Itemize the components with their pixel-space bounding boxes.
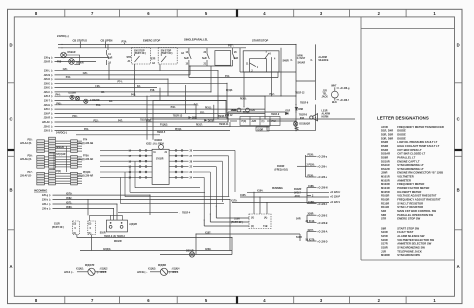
- svg-text:TB1R-12: TB1R-12: [295, 93, 305, 95]
- svg-text:X170↓: X170↓: [231, 199, 238, 202]
- wires S10R box feeders: [204, 206, 249, 226]
- svg-text:LETTER DESIGNATIONS: LETTER DESIGNATIONS: [377, 115, 429, 120]
- wire 24VDC(+) bus upper: [58, 43, 296, 45]
- switch EM STOP box 2 (dashed): [158, 48, 177, 65]
- letter designations rows block 2: [381, 226, 435, 257]
- svg-text:SaR: SaR: [108, 58, 113, 60]
- svg-text:J1R: J1R: [323, 91, 328, 93]
- svg-text:P37↓: P37↓: [228, 44, 234, 48]
- switch S4R aux contacts: [307, 215, 317, 222]
- svg-text:(FREQ ADJ): (FREQ ADJ): [275, 169, 288, 172]
- svg-text:AMMETER: AMMETER: [397, 178, 411, 182]
- module right terminal wires: [169, 150, 188, 179]
- svg-text:P(X): P(X): [242, 121, 247, 123]
- meter tie wires: [90, 215, 123, 221]
- switch S6R contacts group: [189, 48, 235, 66]
- svg-text:SYNCHRONIZING LT: SYNCHRONIZING LT: [397, 167, 424, 171]
- switch S10R part-of dashed box: [249, 214, 271, 229]
- svg-text:X105↓: X105↓: [240, 194, 247, 197]
- svg-text:24VDC(-): 24VDC(-): [56, 131, 67, 135]
- svg-text:K3↓: K3↓: [109, 100, 113, 103]
- svg-text:(O-)(I) J26-AB: (O-)(I) J26-AB: [78, 142, 93, 145]
- svg-text:J26-AA (O-: J26-AA (O-: [20, 142, 32, 145]
- svg-text:+O J26-A: +O J26-A: [317, 231, 327, 234]
- svg-text:X322 ↓(A)↓ P634: X322 ↓(A)↓ P634: [146, 143, 164, 146]
- svg-text:(PART OF): (PART OF): [134, 52, 146, 55]
- svg-text:TB1R-8: TB1R-8: [299, 115, 308, 117]
- svg-text:J1R: J1R: [381, 249, 386, 253]
- svg-text:P31↓: P31↓: [84, 128, 89, 131]
- svg-text:T1B: T1B: [263, 226, 268, 228]
- svg-text:P30↓: P30↓: [72, 115, 77, 118]
- svg-text:DS30R: DS30R: [76, 62, 84, 64]
- svg-text:DS11R: DS11R: [381, 163, 390, 167]
- wire TB1R-4: [118, 211, 178, 213]
- svg-text:R103R: R103R: [381, 198, 389, 202]
- diode D6R: [295, 108, 297, 111]
- switch S45AR horn-test box: [296, 44, 315, 81]
- svg-text:↓X1(X)4: ↓X1(X)4: [171, 267, 180, 270]
- svg-text:DIODE: DIODE: [397, 136, 406, 140]
- svg-text:S45AR: S45AR: [298, 61, 306, 64]
- svg-text:(O-)(I) J26-AR: (O-)(I) J26-AR: [78, 175, 93, 178]
- svg-text:SINGLE/PARALLEL: SINGLE/PARALLEL: [184, 38, 208, 42]
- lamp box outline: [66, 55, 79, 65]
- svg-text:+O J26-P: +O J26-P: [330, 197, 340, 199]
- svg-text:J26-R: J26-R: [44, 62, 51, 64]
- svg-text:(F): (F): [251, 226, 254, 228]
- svg-text:J26-E: J26-E: [44, 83, 51, 85]
- svg-text:J26-H: J26-H: [44, 105, 51, 107]
- svg-text:DS12R: DS12R: [381, 167, 390, 171]
- svg-text:ALARM: ALARM: [322, 113, 330, 116]
- svg-text:TELEPHONE JACK: TELEPHONE JACK: [397, 249, 422, 253]
- svg-text:(1): (1): [73, 233, 76, 235]
- svg-text:TB1R-11: TB1R-11: [219, 124, 229, 126]
- svg-text:P38: P38: [57, 62, 62, 64]
- svg-text:-(○ J26-R: -(○ J26-R: [97, 271, 107, 274]
- svg-text:HORN: HORN: [322, 117, 329, 119]
- svg-text:DS6R: DS6R: [381, 156, 388, 160]
- svg-text:+O J26-s: +O J26-s: [317, 177, 327, 179]
- svg-text:J26-L: J26-L: [44, 71, 51, 73]
- svg-text:JACK: JACK: [322, 96, 329, 99]
- svg-text:DIODE: DIODE: [397, 129, 406, 133]
- svg-text:J26-E: J26-E: [44, 88, 51, 90]
- svg-text:ENGINE RM CONNECTOR “B” 120B: ENGINE RM CONNECTOR “B” 120B: [397, 171, 443, 175]
- svg-text:D: D: [9, 43, 12, 48]
- svg-text:C-: C-: [311, 60, 314, 62]
- svg-text:← TB1R-4: ← TB1R-4: [179, 212, 191, 215]
- svg-text:X188↓: X188↓: [308, 185, 315, 188]
- svg-text:S4R: S4R: [296, 218, 301, 221]
- svg-text:LOW OIL PRESSURE FAULT LT: LOW OIL PRESSURE FAULT LT: [397, 140, 437, 144]
- relay box DS sub: [256, 127, 269, 131]
- wire X107 run: [196, 233, 300, 235]
- svg-text:P31↓: P31↓: [96, 104, 101, 107]
- svg-text:(Y): (Y): [251, 218, 254, 220]
- svg-text:FREQUENCY METER: FREQUENCY METER: [397, 182, 424, 186]
- svg-text:M104R: M104R: [381, 186, 390, 190]
- svg-text:2 P526↓: 2 P526↓: [307, 164, 316, 167]
- svg-text:POWER FACTOR METER: POWER FACTOR METER: [397, 186, 429, 190]
- svg-text:+O J26-D: +O J26-D: [317, 241, 327, 243]
- svg-text:SYNCHRONIZING LT: SYNCHRONIZING LT: [397, 163, 424, 167]
- svg-text:M5D2R: M5D2R: [56, 147, 64, 149]
- wire P41 run: [189, 77, 278, 79]
- svg-text:S4BR: S4BR: [283, 60, 290, 63]
- center dark ticks: [236, 9, 238, 303]
- svg-text:24VDC(+): 24VDC(+): [57, 34, 69, 38]
- svg-text:MAIN CKT BKR CONTROL SW: MAIN CKT BKR CONTROL SW: [397, 209, 436, 213]
- start/stop switch arms: [250, 53, 272, 96]
- svg-text:J26-D: J26-D: [44, 79, 51, 81]
- svg-text:(1): (1): [262, 121, 265, 123]
- svg-text:↓X1(X)2: ↓X1(X)2: [99, 267, 108, 270]
- svg-text:X1(X)3↓: X1(X)3↓: [148, 267, 156, 270]
- svg-text:X18R↓: X18R↓: [308, 201, 315, 204]
- switch S11R dashed box b: [88, 221, 96, 235]
- svg-text:M101R: M101R: [381, 175, 390, 179]
- svg-text:S9R: S9R: [381, 226, 386, 230]
- start/stop inner box: [250, 59, 267, 72]
- svg-text:START STOP SW: START STOP SW: [397, 226, 419, 230]
- svg-text:DS26R: DS26R: [69, 92, 77, 94]
- svg-text:D2R, D5R: D2R, D5R: [381, 133, 393, 137]
- svg-text:J26-AC: J26-AC: [42, 121, 50, 124]
- svg-text:(2): (2): [88, 224, 91, 226]
- svg-text:R110R: R110R: [381, 201, 389, 205]
- zone tick separators top band: [65, 9, 406, 17]
- svg-text:P41↓: P41↓: [225, 75, 230, 78]
- svg-text:50 X270↓: 50 X270↓: [306, 238, 316, 241]
- module left terminal wires: [100, 150, 152, 179]
- svg-text:DS51R: DS51R: [186, 250, 194, 252]
- lamp DS8R: [237, 108, 241, 112]
- svg-text:A: A: [457, 264, 460, 269]
- wire start/stop loop left: [240, 48, 296, 72]
- svg-text:X571↓: X571↓: [66, 201, 73, 204]
- svg-text:TEL: TEL: [323, 94, 328, 96]
- svg-text:M102R: M102R: [381, 178, 390, 182]
- svg-text:+O J26-t: +O J26-t: [317, 165, 326, 168]
- svg-text:ENGINE CAPT LT: ENGINE CAPT LT: [397, 159, 420, 163]
- svg-text:+O J26-g: +O J26-g: [340, 88, 350, 90]
- svg-text:K2↓: K2↓: [101, 91, 105, 94]
- svg-text:M105R: M105R: [381, 190, 390, 194]
- wires alarm cluster: [228, 112, 315, 131]
- svg-text:X209↓: X209↓: [205, 248, 212, 251]
- wires meter runs: [77, 238, 232, 255]
- svg-text:DS10(X)R: DS10(X)R: [299, 124, 310, 126]
- svg-text:J26-F: J26-F: [44, 109, 51, 111]
- svg-text:M108R: M108R: [381, 253, 390, 257]
- diode D1R: [286, 112, 289, 114]
- wire 24VDC(+) bus lower: [58, 47, 246, 49]
- meter box M102R: [106, 220, 127, 232]
- S6R link box: [215, 51, 231, 66]
- svg-text:LS1R: LS1R: [322, 111, 328, 113]
- svg-text:CB OPEN: CB OPEN: [101, 38, 113, 42]
- wire TB1R-13 run: [150, 118, 355, 120]
- svg-text:J26-R: J26-R: [44, 118, 51, 120]
- svg-text:C: C: [9, 117, 12, 122]
- svg-text:HIGH COOLANT TEMP FAULT LT: HIGH COOLANT TEMP FAULT LT: [397, 144, 439, 148]
- svg-text:SYNCHROSCOPE: SYNCHROSCOPE: [397, 253, 420, 257]
- connector rows J26 left column: [42, 57, 270, 133]
- svg-text:C-TEST: C-TEST: [297, 58, 306, 60]
- svg-text:P44↓: P44↓: [56, 93, 61, 96]
- svg-text:S10R: S10R: [381, 230, 388, 234]
- relay box A2R: [240, 117, 280, 126]
- svg-text:J26-S: J26-S: [44, 131, 51, 133]
- meter M101R circle: [159, 145, 164, 150]
- svg-text:J26-N: J26-N: [44, 75, 51, 77]
- svg-text:VOLTMETER: VOLTMETER: [397, 175, 413, 179]
- zone letters right: [457, 43, 460, 270]
- svg-text:S7R: S7R: [381, 217, 386, 221]
- svg-text:J26-S (○-: J26-S (○-: [64, 271, 74, 274]
- svg-text:P48↓: P48↓: [150, 89, 155, 92]
- svg-text:(A): (A): [264, 217, 267, 220]
- svg-text:(O-)(I) J26-AD: (O-)(I) J26-AD: [78, 158, 93, 161]
- svg-text:J26-T: J26-T: [44, 101, 51, 103]
- module box SY02R: [152, 149, 169, 184]
- svg-text:DIODE: DIODE: [397, 133, 406, 137]
- svg-text:J26-g: J26-g: [44, 58, 51, 60]
- wire P42 long run: [150, 95, 296, 97]
- svg-text:F26↓: F26↓: [63, 68, 68, 71]
- svg-text:2 DS26R: 2 DS26R: [90, 100, 100, 102]
- zone tick separators right band: [455, 83, 462, 230]
- svg-text:S10R: S10R: [100, 233, 106, 235]
- zone numbers bottom: [35, 298, 437, 303]
- svg-text:S7R: S7R: [127, 57, 132, 59]
- svg-text:ALARM: ALARM: [318, 56, 326, 59]
- svg-text:D6R: D6R: [298, 109, 303, 111]
- mid dark ticks sides: [8, 149, 462, 151]
- svg-text:P34↓: P34↓: [66, 76, 71, 79]
- svg-text:X1(X)1↓: X1(X)1↓: [76, 267, 84, 270]
- svg-text:P42↓: P42↓: [131, 93, 136, 96]
- svg-text:+O J26-y: +O J26-y: [317, 156, 327, 158]
- svg-text:P1(X)2↓: P1(X)2↓: [160, 124, 168, 127]
- svg-text:SYNC LT RESISTOR: SYNC LT RESISTOR: [397, 205, 423, 209]
- wire labels mid-left: [56, 68, 251, 131]
- svg-text:DIDR: DIDR: [258, 129, 264, 131]
- svg-text:X207↓: X207↓: [308, 229, 315, 232]
- svg-text:ALARM SILENCE SW: ALARM SILENCE SW: [397, 234, 425, 238]
- svg-text:X579↓: X579↓: [66, 193, 73, 196]
- svg-text:J26R: J26R: [381, 171, 387, 175]
- svg-text:TB1R-5: TB1R-5: [157, 132, 166, 134]
- svg-text:AMMETER SELECTOR SW: AMMETER SELECTOR SW: [397, 242, 431, 246]
- svg-text:START/STOP: START/STOP: [252, 38, 268, 42]
- svg-text:J26-Z: J26-Z: [44, 96, 51, 98]
- svg-text:DS10R: DS10R: [381, 159, 390, 163]
- svg-text:M101R: M101R: [155, 140, 163, 142]
- svg-text:J26-W (○-: J26-W (○-: [137, 271, 148, 274]
- svg-text:P74: P74: [83, 139, 88, 142]
- svg-text:+O J26-U: +O J26-U: [330, 192, 340, 194]
- svg-text:M(X)07R: M(X)07R: [85, 265, 95, 267]
- svg-text:P74↓: P74↓: [122, 39, 128, 43]
- svg-text:+O J26-V: +O J26-V: [330, 202, 340, 204]
- svg-text:F26↓: F26↓: [95, 85, 100, 88]
- zone numbers top: [35, 11, 437, 16]
- svg-text:CKT BKR OPEN LT: CKT BKR OPEN LT: [397, 148, 422, 152]
- svg-text:BLK: BLK: [332, 102, 337, 104]
- svg-text:TB1R-14: TB1R-14: [140, 119, 150, 122]
- svg-text:S10R: S10R: [234, 219, 240, 221]
- svg-text:PARALLEL OPERATION SW: PARALLEL OPERATION SW: [397, 213, 433, 217]
- svg-text:R111R: R111R: [381, 205, 389, 209]
- wire verticals lower region: [77, 192, 300, 255]
- svg-text:S7R: S7R: [151, 59, 156, 61]
- zone tick separators bottom band: [65, 296, 406, 303]
- svg-text:RUNNING: RUNNING: [272, 188, 283, 190]
- horn LS1R: [310, 114, 318, 121]
- svg-text:P(X)3↓: P(X)3↓: [175, 128, 182, 131]
- wire verticals mid region: [108, 44, 315, 139]
- svg-text:P42↓: P42↓: [270, 93, 275, 96]
- svg-text:DS9AR: DS9AR: [68, 51, 76, 54]
- svg-text:(1): (1): [88, 233, 91, 235]
- switch S11R dashed box a: [73, 221, 80, 235]
- svg-text:J26-g: J26-g: [42, 195, 49, 197]
- svg-text:P526↓: P526↓: [308, 154, 315, 157]
- svg-text:P46↓: P46↓: [171, 106, 176, 109]
- wire junction dots: [61, 44, 316, 238]
- svg-text:P31↓: P31↓: [200, 112, 205, 115]
- resistor R110R zigzag: [295, 126, 299, 130]
- lamp DS26R b: [75, 97, 79, 101]
- lamp DS51R: [189, 252, 194, 257]
- svg-text:B: B: [457, 188, 460, 193]
- svg-text:KILOWATT METER: KILOWATT METER: [397, 190, 421, 194]
- diode D4R arrow: [204, 119, 207, 121]
- extra row wires lower-mid: [147, 101, 265, 127]
- svg-text:HRN: HRN: [298, 55, 303, 57]
- svg-text:VOLTAGE ADJUST RHEOSTAT: VOLTAGE ADJUST RHEOSTAT: [397, 194, 436, 198]
- zone letters left: [9, 43, 12, 270]
- svg-text:DS4R: DS4R: [381, 148, 388, 152]
- svg-text:B: B: [9, 188, 12, 193]
- svg-text:D3R, D6R: D3R, D6R: [381, 136, 393, 140]
- svg-text:P39 ↓: P39 ↓: [28, 154, 34, 157]
- svg-text:P(X): P(X): [56, 171, 61, 173]
- wire S6R bottom tie: [189, 65, 233, 67]
- svg-text:J26-P: J26-P: [44, 113, 51, 115]
- svg-text:J26-b: J26-b: [42, 200, 49, 202]
- svg-text:SaR: SaR: [234, 58, 239, 60]
- svg-text:P526↓: P526↓: [308, 174, 315, 177]
- svg-text:+O J26-N: +O J26-N: [317, 188, 327, 190]
- svg-text:TB1R-13: TB1R-13: [173, 115, 183, 117]
- svg-text:P32↓: P32↓: [94, 119, 99, 122]
- switch S10R contacts: [307, 232, 317, 242]
- wires running taps: [232, 192, 329, 202]
- svg-text:S16R: S16R: [381, 238, 388, 242]
- letter designations table frame: [361, 17, 455, 260]
- svg-text:A(X)2R: A(X)2R: [129, 223, 137, 226]
- svg-text:PARALLEL LT: PARALLEL LT: [397, 156, 415, 160]
- svg-text:C: C: [457, 117, 460, 122]
- svg-text:SILENCE: SILENCE: [318, 60, 329, 62]
- svg-text:S6R: S6R: [381, 213, 386, 217]
- svg-text:J26-G: J26-G: [44, 126, 51, 128]
- svg-text:A: A: [9, 264, 12, 269]
- svg-text:+O J26-f: +O J26-f: [340, 100, 349, 102]
- svg-text:S17R: S17R: [381, 242, 388, 246]
- svg-text:R102R: R102R: [294, 189, 302, 191]
- svg-text:D: D: [457, 43, 460, 48]
- svg-text:(PART OF): (PART OF): [161, 52, 173, 55]
- svg-text:R103R: R103R: [277, 166, 285, 168]
- wire 24VDC(-): [76, 134, 160, 136]
- svg-text:J26-AF (O-: J26-AF (O-: [20, 175, 32, 178]
- svg-text:J26-a: J26-a: [42, 209, 49, 211]
- svg-text:D(X)R: D(X)R: [208, 120, 215, 122]
- svg-text:P(X)1↓: P(X)1↓: [205, 107, 212, 110]
- svg-text:P55 ↓: P55 ↓: [28, 139, 34, 142]
- wire drops under top labels: [80, 42, 124, 49]
- svg-text:SY02R: SY02R: [156, 158, 164, 160]
- svg-text:X26R↓: X26R↓: [308, 213, 315, 216]
- svg-text:P(X)23: P(X)23: [83, 172, 91, 174]
- svg-text:X582↓: X582↓: [66, 197, 73, 200]
- svg-text:P47↓: P47↓: [118, 119, 123, 122]
- svg-text:INCOMING: INCOMING: [34, 189, 47, 193]
- svg-text:-(○ J26-X: -(○ J26-X: [169, 271, 179, 274]
- svg-text:P74↓: P74↓: [118, 80, 123, 83]
- svg-text:R102R: R102R: [381, 194, 389, 198]
- switch S7R contact column: [107, 50, 110, 65]
- svg-text:X104↓: X104↓: [257, 189, 264, 192]
- svg-text:X580↓: X580↓: [66, 206, 73, 209]
- svg-text:CB STATUS: CB STATUS: [73, 38, 88, 42]
- svg-text:TB1R-6: TB1R-6: [300, 102, 309, 104]
- zone tick separators left band: [8, 83, 15, 230]
- module right staircase wires: [193, 150, 235, 220]
- svg-text:M103R: M103R: [381, 182, 390, 186]
- lamp DS26R c: [84, 99, 88, 103]
- svg-text:D1R, D4R: D1R, D4R: [381, 129, 393, 133]
- svg-text:CKT BKR CLOSED LT: CKT BKR CLOSED LT: [397, 152, 425, 156]
- svg-text:SYNCHRONIZING SW: SYNCHRONIZING SW: [397, 246, 425, 250]
- svg-text:S18R: S18R: [381, 246, 388, 250]
- diode D5R arrow: [189, 116, 192, 118]
- svg-text:+O J26-B: +O J26-B: [317, 223, 327, 225]
- svg-text:WHT: WHT: [331, 85, 337, 87]
- svg-text:S15R: S15R: [381, 234, 388, 238]
- connector group vertical links: [51, 146, 67, 172]
- lamp DS26R a: [70, 95, 74, 99]
- svg-text:DS3R: DS3R: [381, 144, 388, 148]
- switch EM STOP box 1 (dashed): [132, 48, 151, 65]
- svg-text:P17 ↓: P17 ↓: [28, 171, 34, 174]
- svg-text:SaR: SaR: [184, 58, 189, 60]
- svg-text:+O J26-E: +O J26-E: [317, 215, 327, 217]
- svg-text:DS5AR: DS5AR: [381, 152, 390, 156]
- switch S9R start/stop box: [243, 51, 279, 72]
- svg-text:FREQUENCY METER TRANSDUCER: FREQUENCY METER TRANSDUCER: [397, 125, 444, 129]
- lamp DS30R: [69, 59, 75, 65]
- lamp DS10R: [293, 122, 297, 126]
- svg-text:ADJ): ADJ): [295, 195, 301, 198]
- svg-text:TB1R-9: TB1R-9: [271, 114, 280, 116]
- svg-text:S11R: S11R: [54, 224, 60, 226]
